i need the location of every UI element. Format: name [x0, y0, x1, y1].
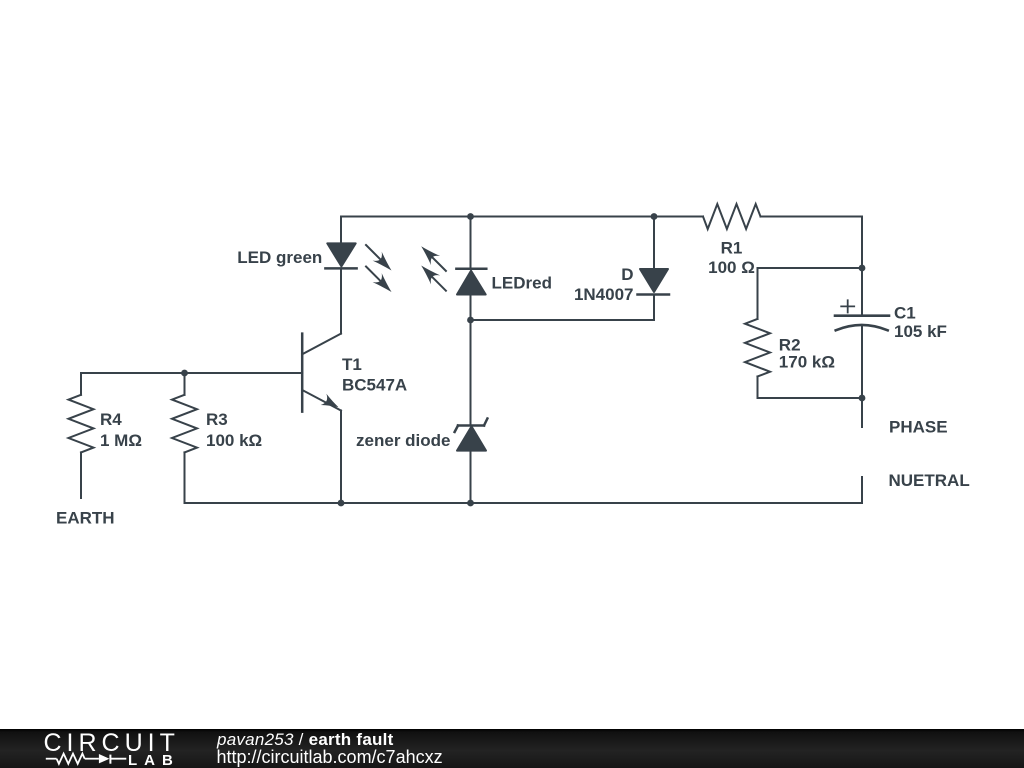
zener anode stub to bottom rail [470, 451, 472, 503]
LEDred light arrow 2 [417, 261, 446, 291]
wire LEDred to zener [470, 320, 472, 426]
svg-text:pavan253 / earth fault: pavan253 / earth fault [216, 730, 394, 749]
svg-text:BC547A: BC547A [342, 376, 407, 395]
svg-text:http://circuitlab.com/c7ahcxz: http://circuitlab.com/c7ahcxz [217, 747, 443, 767]
svg-text:100 kΩ: 100 kΩ [206, 431, 262, 450]
diode D cathode stub [653, 217, 655, 270]
svg-text:zener diode: zener diode [356, 431, 450, 450]
transistor Q1 emitter arrow [320, 394, 341, 413]
zener diode [455, 419, 488, 451]
resistor R2 [745, 319, 770, 377]
wire emitter to bottom rail [340, 411, 342, 504]
node zener-bottom [467, 500, 474, 507]
resistor R4 bottom stub (EARTH) [80, 452, 82, 498]
svg-text:R3: R3 [206, 410, 228, 429]
wire R2 top branch [758, 268, 863, 319]
node base-R3 [181, 370, 188, 377]
transistor Q1 collector diagonal [302, 334, 341, 355]
svg-text:LAB: LAB [128, 752, 180, 768]
logo schematic: diode triangle [99, 754, 110, 763]
svg-text:NUETRAL: NUETRAL [889, 471, 970, 490]
LED green light arrow 1 [366, 245, 396, 275]
svg-text:R1: R1 [721, 239, 743, 258]
resistor R3 top stub [184, 373, 186, 395]
LEDred cathode stub [470, 217, 472, 269]
LED green anode stub to collector [340, 268, 342, 333]
svg-text:1N4007: 1N4007 [574, 285, 634, 304]
logo schematic: resistor zigzag [57, 754, 85, 764]
LEDred light arrow 1 [417, 242, 446, 271]
LED green cathode top stub [340, 217, 342, 244]
wire base rail [81, 372, 302, 374]
resistor R4 top stub [80, 373, 82, 395]
node emitter-bottom [338, 500, 345, 507]
transistor Q1 base bar [301, 334, 304, 412]
capacitor C1 [835, 300, 889, 330]
resistor R3 bottom stub [184, 452, 186, 503]
node top-LEDred [467, 213, 474, 220]
node top-D [651, 213, 658, 220]
LEDred anode stub [470, 295, 472, 321]
wire neutral / bottom rail [185, 477, 863, 503]
diode D 1N4007 [638, 269, 670, 295]
wire R2 bottom branch [758, 377, 863, 399]
logo schematic: wire mid [85, 758, 99, 760]
svg-text:1 MΩ: 1 MΩ [100, 431, 142, 450]
logo schematic: wire left [46, 754, 127, 764]
diode LED green [325, 243, 356, 268]
logo schematic: wire right [110, 758, 126, 760]
svg-text:LED green: LED green [237, 248, 322, 267]
wire R1 to C1 top [761, 217, 863, 315]
diode LEDred [456, 269, 486, 295]
transistor Q1 emitter diagonal [302, 390, 341, 411]
svg-text:170 kΩ: 170 kΩ [779, 353, 835, 372]
svg-text:LEDred: LEDred [492, 274, 552, 293]
logo schematic: diode bar [109, 755, 111, 764]
wire C1 bottom to PHASE stub [861, 327, 863, 427]
resistor R1 [703, 204, 761, 229]
svg-text:R4: R4 [100, 410, 122, 429]
resistor R4 [69, 395, 94, 453]
LED green light arrow 2 [366, 267, 396, 297]
svg-text:PHASE: PHASE [889, 418, 948, 437]
svg-text:EARTH: EARTH [56, 509, 115, 528]
svg-text:C1: C1 [894, 304, 916, 323]
resistor R3 [172, 395, 197, 453]
svg-text:100 Ω: 100 Ω [708, 258, 755, 277]
svg-text:105 kF: 105 kF [894, 322, 947, 341]
wire D anode to node B [471, 295, 655, 321]
node B (LEDred anode junction) [467, 317, 474, 324]
svg-text:D: D [621, 265, 633, 284]
node C1-R2 bottom [859, 395, 866, 402]
wire top rail (collector to R1) [341, 216, 703, 218]
svg-text:T1: T1 [342, 355, 362, 374]
node C1-R2 top [859, 265, 866, 272]
